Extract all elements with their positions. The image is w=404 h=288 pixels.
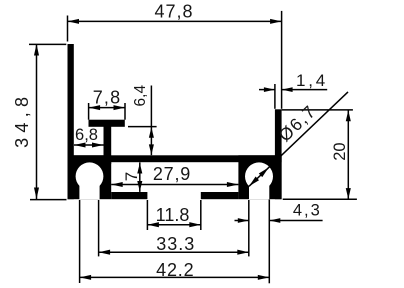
dim 42.2 line <box>80 276 270 278</box>
svg-text:6,4: 6,4 <box>132 85 149 107</box>
arrow 33.3 right <box>237 250 249 255</box>
left slot opening <box>79 176 99 199</box>
dim 7,8 ext right <box>124 103 126 120</box>
dim 4,3 line right tail <box>269 220 322 222</box>
svg-text:7: 7 <box>122 172 141 181</box>
right screw hole <box>245 162 273 190</box>
dim 1,4 ext left <box>274 84 276 109</box>
arrow 7 top <box>137 163 142 174</box>
arrow 1,4 right <box>282 87 293 92</box>
profile right boss block <box>238 155 281 199</box>
dim 7,8 ext left <box>88 103 90 120</box>
svg-text:11.8: 11.8 <box>156 205 190 225</box>
dim 7,8 line <box>89 107 125 109</box>
arrow 42.2 left <box>80 275 92 280</box>
left screw hole <box>76 162 104 190</box>
arrow 6,4 bottom <box>149 144 154 155</box>
svg-text:1,4: 1,4 <box>296 71 328 90</box>
diameter leader line <box>249 92 348 186</box>
svg-text:27,9: 27,9 <box>153 164 191 184</box>
svg-text:20: 20 <box>331 142 349 160</box>
arrow 11.8 left <box>147 222 159 227</box>
arrow 33.3 left <box>99 250 111 255</box>
dim 4,3 / 42.2 shared ext <box>268 200 270 284</box>
dim 33.3 ext left <box>98 200 100 256</box>
profile bottom flange right <box>201 192 239 199</box>
dim 4,3 line left tail <box>235 220 249 222</box>
arrow 6,4 top <box>149 127 154 138</box>
arrow 27,9 right <box>227 182 239 187</box>
profile left boss block <box>68 155 112 199</box>
dim 6,4 line <box>150 86 152 156</box>
dim 20 ext bottom <box>283 198 357 200</box>
dim 42.2 ext left <box>79 200 81 283</box>
svg-text:6,8: 6,8 <box>75 126 98 144</box>
svg-text:7,8: 7,8 <box>93 88 122 108</box>
arrow 34,8 bottom <box>34 188 39 200</box>
dim 11.8 ext right <box>200 200 202 230</box>
profile T-stem <box>104 126 112 164</box>
dim 1,4 line left tail <box>259 89 275 91</box>
arrow 47,8 left <box>68 19 80 24</box>
profile bottom flange left <box>111 192 147 199</box>
dim 47,8 line <box>68 20 282 22</box>
arrow 7,8 left <box>89 105 101 110</box>
profile T-bar <box>89 120 125 127</box>
arrow 27,9 left <box>111 182 123 187</box>
arrow 47,8 right <box>270 19 282 24</box>
arrow 4,3 right <box>269 218 280 223</box>
svg-text:42.2: 42.2 <box>156 260 194 280</box>
arrow diameter upper <box>259 167 269 177</box>
profile base top wall <box>68 155 282 162</box>
svg-text:4,3: 4,3 <box>293 202 322 220</box>
dim 34,8 ext bottom <box>30 199 67 201</box>
svg-text:47,8: 47,8 <box>154 2 193 22</box>
dim 34,8 line <box>36 44 38 199</box>
dim 6,4 ext tick <box>128 126 157 128</box>
arrow 42.2 right <box>258 275 270 280</box>
profile left wall <box>68 44 74 199</box>
arrow 6,8 right <box>92 142 104 147</box>
arrow diameter lower <box>249 177 259 187</box>
dim 20 line <box>347 110 349 199</box>
arrow 1,4 left <box>264 87 275 92</box>
dim 34,8 ext top <box>29 43 66 45</box>
arrow 20 top <box>346 110 351 121</box>
dim 11.8 ext left <box>146 200 148 230</box>
arrow 7,8 right <box>114 105 126 110</box>
dim 1,4 line right tail <box>282 89 328 91</box>
dim 11.8 line <box>147 224 200 226</box>
dim 6,8 line <box>74 144 104 146</box>
arrow 4,3 left <box>238 218 249 223</box>
arrow 6,8 left <box>74 142 86 147</box>
dim 33.3 line <box>99 251 249 253</box>
svg-text:34,8: 34,8 <box>12 92 32 148</box>
dim 7 line <box>139 162 141 192</box>
dim 20 ext top <box>282 109 353 111</box>
arrow 20 bottom <box>346 188 351 199</box>
right slot opening <box>249 176 269 199</box>
dim 27,9 line <box>111 184 238 186</box>
arrow 7 bottom <box>137 181 142 192</box>
arrow 11.8 right <box>189 222 201 227</box>
dim 47,8 / 1,4 shared ext right <box>281 11 283 109</box>
profile right wall <box>275 109 282 199</box>
dim 47,8 ext left <box>67 16 69 42</box>
svg-text:33.3: 33.3 <box>156 234 195 254</box>
dim 4,3 / 33.3 shared ext <box>248 200 250 256</box>
arrow 34,8 top <box>34 44 39 56</box>
